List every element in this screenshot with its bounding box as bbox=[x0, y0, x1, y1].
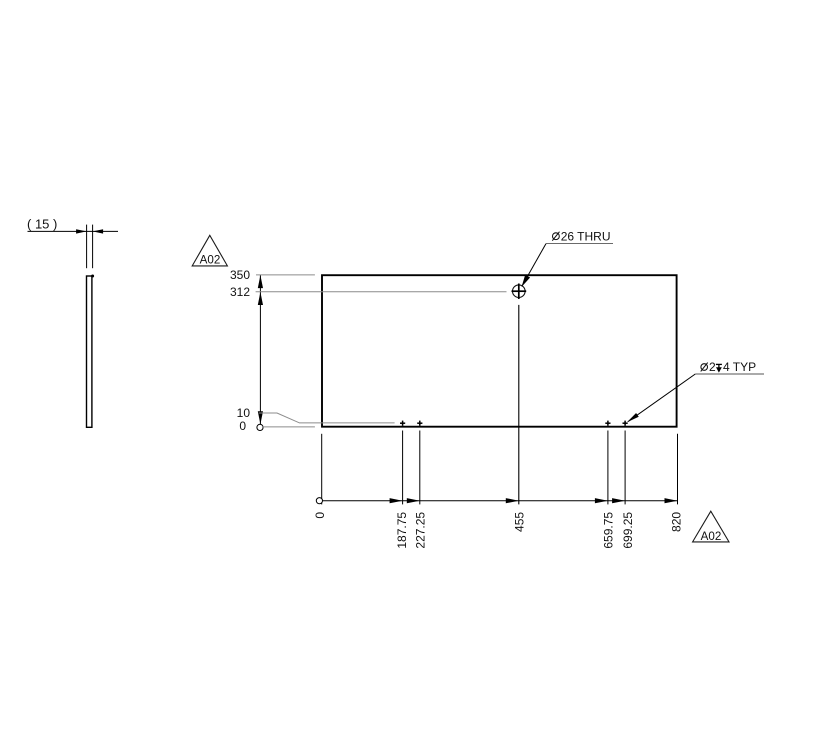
svg-text:820: 820 bbox=[670, 512, 684, 532]
svg-text:227.25: 227.25 bbox=[414, 512, 428, 549]
svg-text:2: 2 bbox=[709, 360, 716, 374]
svg-text:699.25: 699.25 bbox=[621, 512, 635, 549]
svg-text:312: 312 bbox=[230, 285, 250, 299]
svg-text:( 15 ): ( 15 ) bbox=[27, 217, 57, 232]
svg-text:A02: A02 bbox=[200, 254, 221, 267]
svg-text:350: 350 bbox=[230, 268, 250, 282]
svg-text:187.75: 187.75 bbox=[395, 512, 409, 549]
svg-text:0: 0 bbox=[313, 512, 327, 519]
svg-text:455: 455 bbox=[513, 512, 527, 532]
svg-text:4 TYP: 4 TYP bbox=[723, 360, 756, 374]
svg-text:10: 10 bbox=[237, 406, 251, 420]
svg-text:659.75: 659.75 bbox=[601, 512, 615, 549]
svg-text:A02: A02 bbox=[701, 530, 722, 543]
svg-text:0: 0 bbox=[239, 419, 246, 433]
svg-text:26 THRU: 26 THRU bbox=[561, 229, 611, 243]
